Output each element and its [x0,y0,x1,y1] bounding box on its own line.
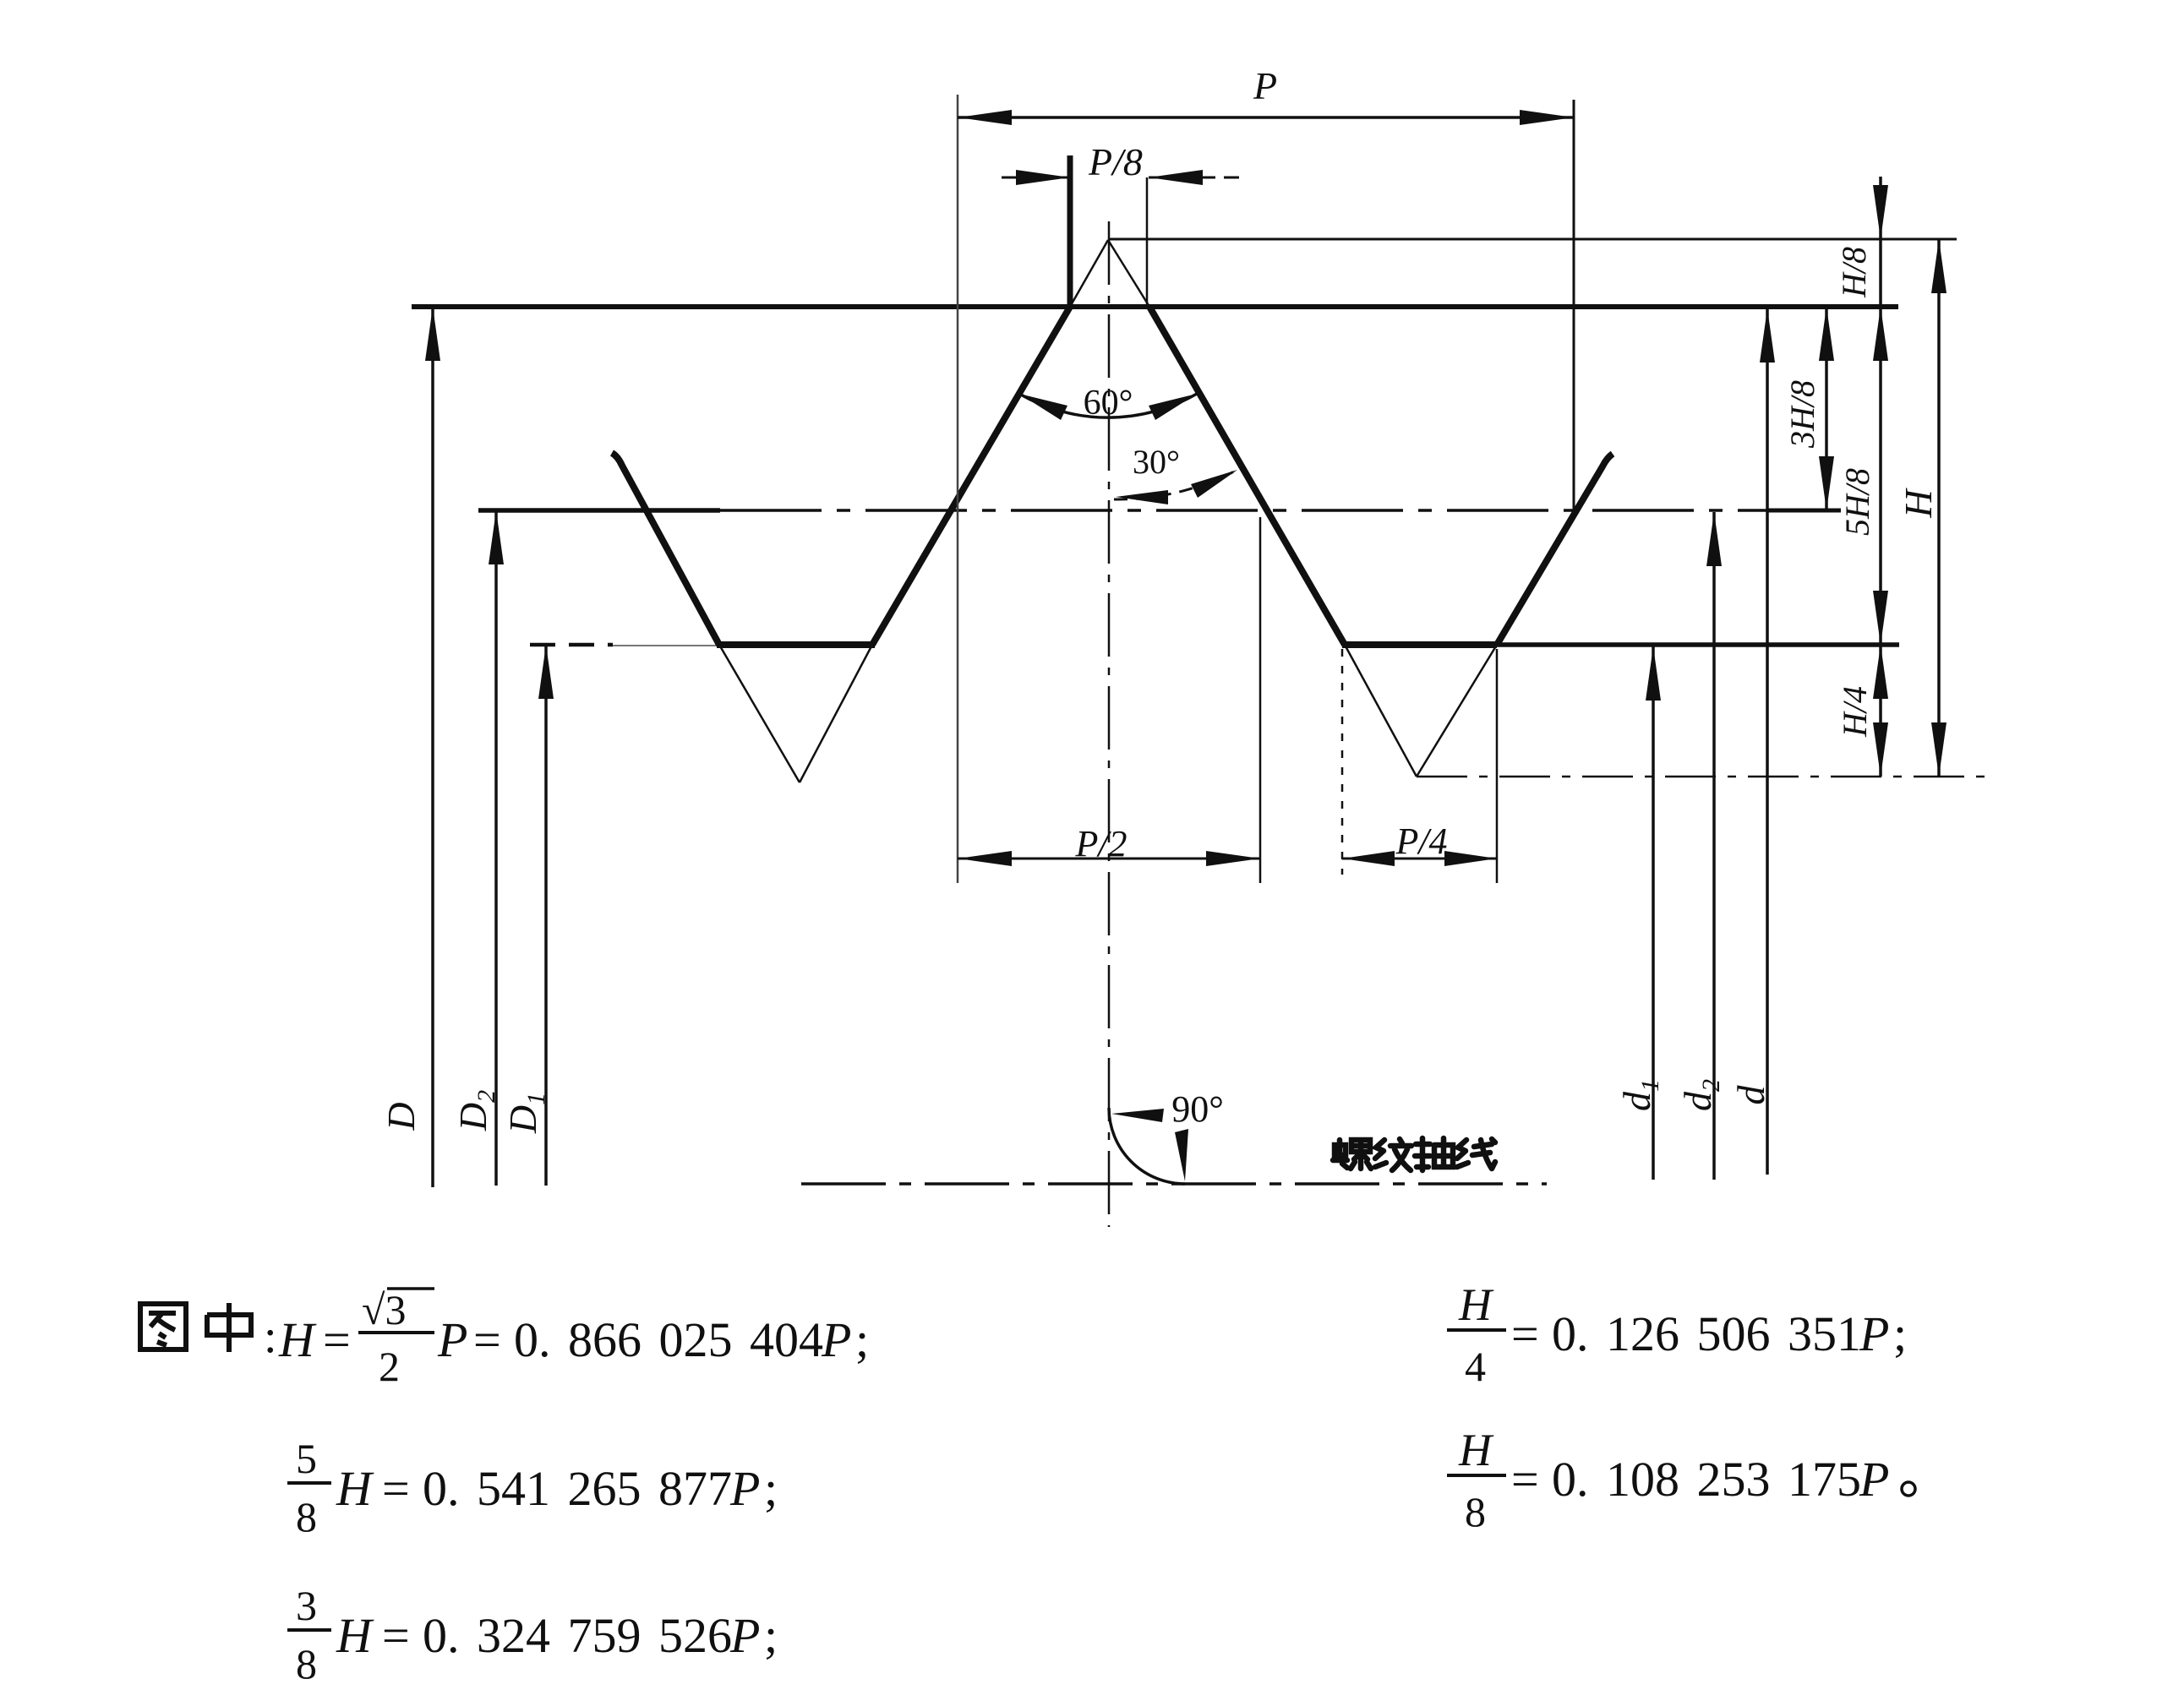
dimension D1 line [544,645,548,1186]
svg-text:P/2: P/2 [1074,823,1127,864]
dimension P line [958,116,1574,119]
label 图 (hand-drawn) [140,1304,186,1349]
dimension P arrow left [958,110,1012,125]
svg-text:3: 3 [296,1582,317,1629]
svg-text:0. 324 759 526: 0. 324 759 526 [423,1608,732,1663]
svg-text:D1: D1 [501,1093,550,1134]
dimension P/4 arrow right [1444,851,1497,866]
dimension P/8 thin extension line [1146,177,1149,307]
wire peak right thin flank above crest [1108,240,1149,307]
wire peak right flank down to right valley (thick) [1149,307,1345,645]
wire left-valley left flank (thick) [612,453,719,645]
dimension P/2 line [958,858,1260,860]
svg-text:;: ; [764,1608,778,1663]
svg-text:=: = [1511,1452,1539,1507]
dimension 90deg arc [1109,1108,1185,1184]
node bottom-apex-line (bottom of fundamental triangle) [1417,776,1989,778]
svg-text:0. 126 506 351: 0. 126 506 351 [1552,1306,1861,1361]
dimension H line [1937,239,1941,777]
dimension 30deg dashed arc [1114,470,1237,499]
wire right-valley thin V left side [1345,645,1417,777]
node pitch-line left solid segment (D2/d2 level) [478,508,720,513]
dimension P/2 extension line right [1259,517,1262,883]
svg-text:d2: d2 [1676,1079,1725,1111]
svg-text:P/8: P/8 [1088,140,1143,183]
formula block left: line 1 (图中: H = sqrt3/2 P = 0.866 025 404P;) [140,1279,1915,1687]
dimension H/4 arrow bottom (down onto bottom apex line) [1873,722,1888,777]
label 中 (hand-drawn) [207,1303,251,1352]
node apex-line (top of fundamental triangle, H reference) [1108,238,1957,241]
svg-text:;: ; [764,1461,778,1516]
label thread-axis (Chinese 螺纹轴线, hand-drawn strokes) [1333,1138,1495,1170]
dimension P/4 line [1342,858,1497,860]
dimension 30deg arrow left (at centerline) [1116,490,1168,504]
svg-text:30°: 30° [1133,443,1180,481]
svg-text:H: H [1458,1279,1494,1330]
svg-text:0. 541 265 877: 0. 541 265 877 [423,1461,732,1516]
svg-text:2: 2 [379,1343,400,1390]
dimension P/2 arrow left [958,851,1012,866]
wire left-valley root flat (thick) [717,641,875,648]
dimension P/8 left leader [1002,177,1070,179]
svg-text:=: = [1511,1306,1539,1361]
dimension 60deg arc [1019,394,1197,417]
svg-text:=: = [323,1312,351,1367]
svg-text:H: H [1458,1425,1494,1475]
dimension d line [1766,308,1769,1175]
dimension 60deg arrow right [1149,394,1197,420]
svg-text:H: H [278,1312,317,1367]
dimension P/2 arrow right [1206,851,1260,866]
dimension 3H/8 arrow bottom [1819,456,1834,510]
dimension P/8 arrow left [1016,170,1070,185]
svg-text:H: H [336,1608,374,1663]
dimension 3H/8 line [1825,307,1828,510]
svg-text:D2: D2 [451,1090,500,1131]
dimension D2 arrow [489,510,504,564]
dimension 90deg arrow top (pointing left onto centerline) [1111,1109,1164,1122]
dimension D1 arrow [538,645,554,699]
dimension 5H/8 arrow bottom (down onto root flat) [1873,591,1888,645]
dimension H/8 arrow (down onto apex line) [1873,185,1888,239]
svg-text:90°: 90° [1171,1088,1224,1130]
svg-text:3H/8: 3H/8 [1783,380,1821,449]
wire left-valley thin V right side [800,645,872,782]
dimension D line [431,307,434,1187]
svg-text:0. 108 253 175: 0. 108 253 175 [1552,1452,1861,1507]
svg-text:H: H [336,1461,374,1516]
svg-text:5H/8: 5H/8 [1838,468,1876,536]
dimension H/4 arrow top (up onto root flat) [1873,645,1888,699]
dimension 5H/8 arrow top (up onto crest line) [1873,307,1888,361]
svg-text:P: P [729,1608,760,1663]
svg-text:H: H [1897,488,1940,519]
dimension d1 line [1652,646,1655,1180]
svg-text:=: = [382,1608,410,1663]
node root-flat-level left dashes (D1 level) [530,643,613,647]
svg-text:D: D [379,1102,423,1131]
dimension P extension line right [1573,100,1575,517]
svg-text:8: 8 [296,1493,317,1540]
dimension d arrow [1760,308,1775,363]
dimension P/8 thick extension line [1067,155,1073,307]
wire right-valley thin V right side [1417,645,1497,777]
svg-text:=: = [473,1312,501,1367]
dimension P/4 dotted extension left [1341,649,1344,875]
svg-text::: : [264,1311,277,1363]
svg-text:;: ; [1893,1306,1907,1361]
wire right-valley root flat (thick) [1342,641,1497,648]
svg-text:P: P [729,1461,760,1516]
wire peak left thin flank above crest [1070,240,1108,307]
dimension P/8 right leader dash [1224,177,1239,179]
dimension d2 arrow [1706,512,1722,566]
node pitch-line dash-dot segment [720,509,1766,512]
dimension H arrow bottom [1931,722,1946,777]
svg-text:8: 8 [296,1640,317,1687]
svg-text:d1: d1 [1615,1079,1664,1111]
svg-text:4: 4 [1465,1343,1486,1390]
dimension P arrow right [1520,110,1574,125]
node root-flat-level thin grey extension [613,645,720,646]
svg-text:=: = [382,1461,410,1516]
svg-text:8: 8 [1465,1488,1486,1535]
svg-text:H/4: H/4 [1836,686,1874,738]
node profile-centerline (vertical through crest peak) [1108,221,1111,1227]
svg-text:H/8: H/8 [1835,247,1873,298]
dimension d1 arrow [1646,646,1661,701]
svg-text:P: P [1253,64,1277,107]
wire rising flank left-valley to peak (thick) [872,307,1070,645]
svg-text:P/4: P/4 [1395,820,1447,862]
dimension P/4 arrow left [1342,851,1395,866]
dimension D2 line [494,510,498,1186]
dimension H/8 + 5H/8 + H/4 shared line [1879,177,1882,777]
wire right-valley right flank rising (thick) [1497,454,1613,645]
svg-text:d: d [1729,1085,1772,1105]
svg-text:60°: 60° [1084,384,1133,422]
svg-text:;: ; [855,1312,869,1367]
svg-text:P: P [1859,1306,1889,1361]
wire left-valley thin V left side [719,645,800,782]
svg-text:P: P [1859,1452,1889,1507]
node crest-line (major diameter D/d line) [412,304,1898,309]
svg-text:√3: √3 [362,1286,406,1333]
dimension 3H/8 arrow top [1819,307,1834,361]
svg-text:P: P [821,1312,851,1367]
dimension d2 line [1712,512,1716,1180]
node root-flat-level right extension (d1 level) [1497,642,1899,647]
dimension P/4 extension right [1496,649,1499,883]
svg-text:0. 866 025 404: 0. 866 025 404 [514,1312,823,1367]
dimension P extension line left [957,95,959,883]
svg-text:P: P [437,1312,467,1367]
dimension D arrow [425,307,440,361]
node thread-axis line (dash-dot) [801,1182,1547,1186]
node pitch-line right solid segment [1766,509,1841,513]
dimension H arrow top [1931,239,1946,293]
dimension P/8 right leader [1149,177,1215,179]
dimension P/8 arrow right [1149,170,1203,185]
dimension 30deg arrow right (at flank) [1191,470,1237,498]
dimension 90deg arrow bottom (pointing down onto axis) [1175,1129,1188,1181]
svg-text:5: 5 [296,1435,317,1482]
dimension 60deg arrow left [1019,394,1067,420]
